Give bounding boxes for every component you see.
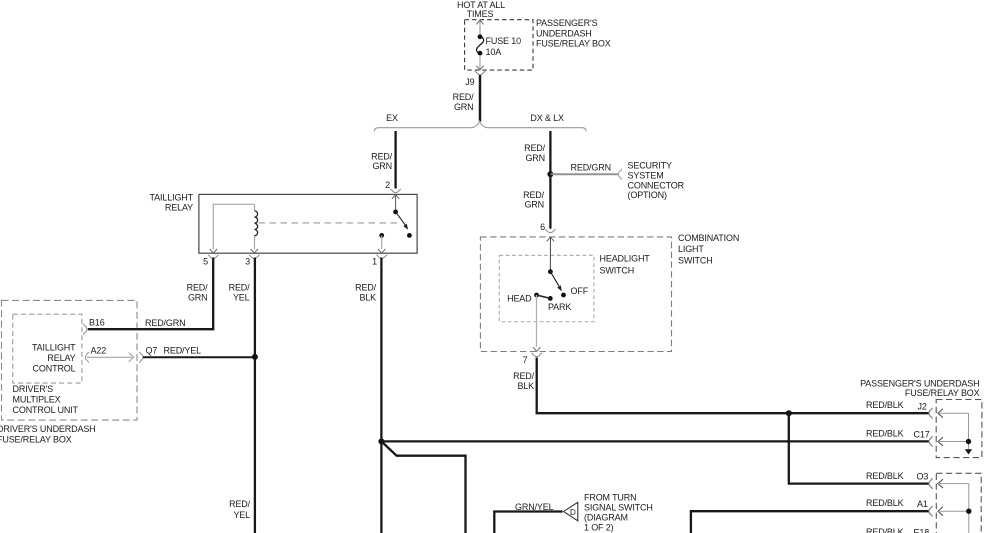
switch output wire (gray) (536, 295, 538, 347)
svg-text:6: 6 (540, 222, 545, 232)
svg-text:7: 7 (523, 355, 528, 365)
wire (internal below fuse) (479, 55, 481, 70)
svg-text:2: 2 (385, 180, 390, 190)
svg-text:RED/: RED/ (229, 283, 251, 293)
svg-text:J2: J2 (918, 401, 927, 411)
HEAD contact (534, 293, 539, 298)
svg-text:RED/: RED/ (187, 283, 209, 293)
svg-text:GRN: GRN (524, 200, 544, 210)
svg-text:SWITCH: SWITCH (600, 265, 635, 275)
svg-text:RED/BLK: RED/BLK (866, 400, 904, 410)
relay internal wire pin5 to coil (213, 204, 254, 249)
pin 6 entry arrow (547, 237, 554, 241)
svg-text:C17: C17 (914, 429, 930, 439)
svg-text:DX & LX: DX & LX (530, 113, 564, 123)
link HEAD-PARK (537, 295, 551, 298)
PARK contact (548, 296, 553, 301)
svg-text:TAILLIGHT: TAILLIGHT (150, 192, 194, 202)
svg-text:GRN: GRN (454, 102, 474, 112)
A22 internal arrow line (85, 352, 89, 363)
svg-text:SWITCH: SWITCH (678, 256, 713, 266)
wire pin7 down and right to J2 (537, 358, 929, 414)
security connector cup (618, 169, 622, 180)
headlight switch inner dashed box (499, 255, 594, 321)
wire RED/GRN (DX&LX) upper (549, 131, 551, 174)
svg-text:HEAD: HEAD (507, 294, 532, 304)
svg-text:FUSE 10: FUSE 10 (486, 36, 522, 46)
wire C17 to right (381, 440, 929, 442)
wire GRN/YEL (494, 512, 562, 533)
B16 terminal cup (83, 324, 87, 335)
relay common from pin 2 (395, 195, 397, 212)
svg-text:TAILLIGHT: TAILLIGHT (32, 343, 76, 353)
terminal cup above pin 6 (545, 229, 556, 233)
svg-text:FUSE/RELAY BOX: FUSE/RELAY BOX (0, 434, 72, 444)
svg-text:BLK: BLK (517, 381, 534, 391)
svg-text:3: 3 (245, 256, 250, 266)
svg-text:RELAY: RELAY (165, 203, 193, 213)
relay coil (254, 204, 256, 249)
brace (split EX / DX&LX) (374, 121, 586, 131)
svg-text:5: 5 (203, 256, 208, 266)
ground-ish down arrow (965, 449, 972, 454)
pin 2 entry arrow (392, 195, 399, 199)
svg-text:RED/BLK: RED/BLK (866, 429, 904, 439)
junction node C17 (378, 438, 384, 444)
svg-text:DRIVER'S: DRIVER'S (13, 384, 54, 394)
svg-text:CONNECTOR: CONNECTOR (628, 180, 685, 190)
svg-text:E18: E18 (914, 528, 930, 533)
wire B16 RED/GRN to relay pin 5 (88, 258, 213, 330)
svg-text:FUSE/RELAY BOX: FUSE/RELAY BOX (905, 388, 980, 398)
svg-text:COMBINATION: COMBINATION (678, 233, 739, 243)
dashed box J2/C17 (936, 400, 982, 458)
taillight relay control inner dashed box (13, 314, 82, 383)
svg-text:PARK: PARK (548, 302, 571, 312)
svg-text:O3: O3 (917, 472, 929, 482)
terminal cup above relay pin 2 (390, 189, 401, 193)
relay dashed actuator link (259, 222, 399, 224)
wire RED/YEL down (254, 258, 256, 533)
svg-text:CONTROL: CONTROL (33, 364, 76, 374)
pin 5 exit (210, 249, 217, 253)
wire RED/GRN down to switch (549, 174, 551, 228)
svg-text:RED/: RED/ (453, 92, 475, 102)
svg-text:SIGNAL SWITCH: SIGNAL SWITCH (584, 503, 653, 513)
wire drop to O3 (789, 413, 929, 483)
svg-text:RED/: RED/ (229, 499, 251, 509)
svg-text:RED/BLK: RED/BLK (866, 527, 904, 533)
terminal cup below fuse box (475, 71, 486, 75)
svg-text:RED/: RED/ (523, 190, 545, 200)
svg-text:PASSENGER'S: PASSENGER'S (536, 18, 598, 28)
switch blade toward OFF (550, 272, 559, 288)
svg-text:HEADLIGHT: HEADLIGHT (600, 254, 651, 264)
svg-text:D: D (570, 508, 576, 517)
wire J9 RED/GRN down to brace (479, 75, 482, 121)
svg-text:RED/: RED/ (513, 371, 535, 381)
pin 1 exit (378, 249, 385, 253)
svg-text:10A: 10A (486, 47, 502, 57)
svg-text:BLK: BLK (359, 293, 376, 303)
svg-text:LIGHT: LIGHT (678, 244, 704, 254)
svg-text:1: 1 (372, 256, 377, 266)
svg-text:FROM TURN: FROM TURN (584, 492, 636, 502)
svg-text:RED/: RED/ (524, 143, 546, 153)
svg-text:Q7: Q7 (146, 346, 158, 356)
svg-text:GRN/YEL: GRN/YEL (515, 502, 554, 512)
svg-text:(DIAGRAM: (DIAGRAM (584, 513, 628, 523)
wire Q7 RED/YEL to junction (143, 356, 255, 358)
svg-text:FUSE/RELAY BOX: FUSE/RELAY BOX (536, 39, 611, 49)
driver's underdash fuse/relay box (outer dashed) (2, 300, 138, 420)
relay blade with arrowhead (396, 212, 406, 226)
junction node J2 drop (786, 410, 792, 416)
svg-text:YEL: YEL (233, 510, 250, 520)
wire jog down-right (381, 441, 465, 533)
svg-text:RED/: RED/ (355, 283, 377, 293)
svg-text:RED/GRN: RED/GRN (145, 318, 185, 328)
svg-text:1 OF 2): 1 OF 2) (584, 523, 614, 533)
Q7 terminal cup (139, 352, 143, 363)
fuse FUSE 10 10A (478, 34, 483, 39)
svg-text:GRN: GRN (188, 293, 208, 303)
wire A1 RED/BLK (691, 511, 929, 533)
svg-text:CONTROL UNIT: CONTROL UNIT (13, 405, 79, 415)
svg-text:SYSTEM: SYSTEM (628, 170, 664, 180)
wire (internal fuse feed) (479, 20, 481, 34)
relay NC contact to pin 1 (379, 233, 384, 238)
wire RED/GRN (EX) (394, 131, 396, 189)
wire RED/BLK down (380, 258, 382, 533)
svg-text:A22: A22 (91, 345, 107, 355)
svg-text:RED/BLK: RED/BLK (866, 471, 904, 481)
pin 3 exit (251, 249, 258, 253)
switch common wire (549, 238, 551, 272)
wire to security connector (option, gray) (550, 173, 618, 175)
svg-text:(OPTION): (OPTION) (628, 190, 667, 200)
connector triangle D (564, 502, 578, 521)
svg-text:B16: B16 (89, 317, 105, 327)
passenger's underdash fuse/relay box (top, dashed) (465, 20, 533, 70)
svg-text:UNDERDASH: UNDERDASH (536, 28, 592, 38)
svg-text:OFF: OFF (571, 286, 589, 296)
svg-text:RELAY: RELAY (47, 353, 75, 363)
svg-text:RED/GRN: RED/GRN (571, 163, 611, 173)
pin 7 exit (533, 347, 540, 351)
svg-text:DRIVER'S UNDERDASH: DRIVER'S UNDERDASH (0, 424, 96, 434)
svg-text:SECURITY: SECURITY (628, 161, 672, 171)
svg-text:GRN: GRN (525, 153, 545, 163)
svg-text:GRN: GRN (372, 161, 392, 171)
svg-text:A1: A1 (917, 499, 928, 509)
dashed box O3/A1/E18 (936, 473, 981, 533)
svg-text:RED/: RED/ (371, 151, 393, 161)
svg-text:J9: J9 (465, 77, 474, 87)
OFF contact (561, 293, 566, 298)
svg-text:RED/YEL: RED/YEL (164, 346, 202, 356)
svg-text:MULTIPLEX: MULTIPLEX (13, 395, 61, 405)
relay NO contact (407, 233, 412, 238)
junction node Q7/RED-YEL (252, 354, 258, 360)
junction node (547, 171, 553, 177)
svg-text:TIMES: TIMES (467, 9, 494, 19)
svg-text:YEL: YEL (233, 293, 250, 303)
svg-text:EX: EX (386, 113, 398, 123)
svg-text:RED/BLK: RED/BLK (866, 498, 904, 508)
